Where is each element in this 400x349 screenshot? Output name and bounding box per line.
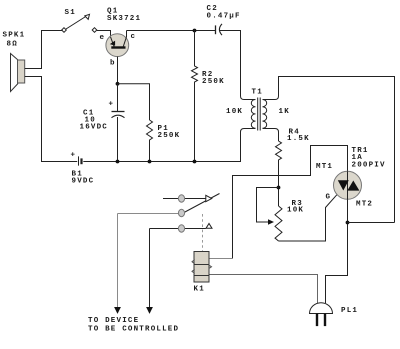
transformer T1 primary winding xyxy=(251,100,255,129)
wire top rail xyxy=(127,30,216,32)
svg-text:TO DEVICE: TO DEVICE xyxy=(88,317,139,325)
relay top contact triangle xyxy=(206,195,212,201)
relay coil K1 body xyxy=(194,252,209,283)
wire Q1 base down xyxy=(117,57,119,84)
svg-text:c: c xyxy=(131,33,137,41)
svg-text:250K: 250K xyxy=(202,78,225,86)
switch S1 blade xyxy=(66,16,87,29)
wire T1 secondary top to right rail xyxy=(263,77,395,223)
wire C1 top xyxy=(117,84,119,111)
potentiometer R3 xyxy=(275,206,282,241)
transistor Q1 base bar xyxy=(111,46,125,48)
transformer T1 secondary winding xyxy=(263,100,267,129)
wire relay coil to MT1 riser xyxy=(210,258,233,260)
wire C1 bottom xyxy=(117,117,119,162)
svg-text:K1: K1 xyxy=(194,286,205,294)
potentiometer P1 xyxy=(147,120,153,162)
svg-text:TO BE CONTROLLED: TO BE CONTROLLED xyxy=(88,326,179,334)
svg-text:250K: 250K xyxy=(158,132,181,140)
wire R3 wiper loop xyxy=(257,188,279,223)
wire triac MT2 down xyxy=(326,199,348,303)
svg-text:SPK1: SPK1 xyxy=(3,32,26,40)
svg-text:G: G xyxy=(326,194,332,202)
wire speaker bottom terminal to bottom rail xyxy=(25,77,77,162)
capacitor C1 top plate xyxy=(112,111,125,113)
arrowhead left to-device xyxy=(114,307,121,314)
wire base node to P1 xyxy=(118,84,150,120)
plug PL1 right prong xyxy=(324,314,326,327)
svg-text:+: + xyxy=(109,101,115,109)
node junction base/C1/P1 xyxy=(116,82,120,86)
wire relay coil bottom to plug xyxy=(210,275,318,304)
svg-text:0.47μF: 0.47μF xyxy=(207,13,241,21)
node junction C1/bottom rail xyxy=(116,160,120,164)
relay terminal top xyxy=(178,195,184,202)
node junction P1/bottom rail xyxy=(148,160,152,164)
resistor R4 xyxy=(276,141,282,206)
svg-text:1.5K: 1.5K xyxy=(287,135,310,143)
capacitor C1 bottom plate xyxy=(112,115,125,118)
svg-text:T1: T1 xyxy=(252,89,263,97)
svg-text:b: b xyxy=(110,59,116,67)
plug PL1 dome xyxy=(310,303,333,314)
relay armature xyxy=(184,194,220,213)
relay coil K1 right chevron xyxy=(209,265,212,269)
relay terminal middle xyxy=(178,209,184,216)
capacitor C2 left plate xyxy=(215,25,217,34)
relay actuator dashed link xyxy=(202,214,204,251)
svg-text:10K: 10K xyxy=(287,207,304,215)
relay coil K1 left chevrons xyxy=(192,260,195,274)
relay terminal bottom xyxy=(178,225,184,232)
svg-text:PL1: PL1 xyxy=(341,307,358,315)
wire bottom rail xyxy=(83,129,255,162)
svg-text:+: + xyxy=(71,152,77,160)
svg-text:9VDC: 9VDC xyxy=(72,177,95,185)
R3 wiper arrow xyxy=(268,219,274,225)
svg-text:200PIV: 200PIV xyxy=(352,162,386,170)
wire C2 to T1 primary top xyxy=(220,31,256,100)
wire S1 to Q1 emitter xyxy=(97,31,111,37)
node junction R2/top rail xyxy=(193,29,197,33)
battery B1 short plate xyxy=(80,158,82,164)
switch S1 blade tip arrow xyxy=(85,14,90,19)
transistor Q1 collector line xyxy=(123,31,126,47)
transformer T1 core xyxy=(258,98,261,131)
switch S1 right terminal xyxy=(92,28,97,33)
node junction R2/bottom rail xyxy=(193,160,197,164)
wire speaker top terminal to S1 xyxy=(25,31,62,69)
svg-text:1K: 1K xyxy=(279,108,290,116)
relay contact top stub xyxy=(163,198,206,200)
triac TR1 vertical line xyxy=(347,171,349,199)
svg-text:MT1: MT1 xyxy=(316,163,333,171)
svg-text:16VDC: 16VDC xyxy=(80,124,109,132)
resistor R2 xyxy=(192,31,198,162)
wire R3 bottom to gate xyxy=(279,195,337,241)
svg-text:S1: S1 xyxy=(65,9,76,17)
relay bottom contact triangle xyxy=(206,224,212,229)
arrowhead right to-device xyxy=(146,307,153,314)
triac TR1 body xyxy=(334,171,362,199)
relay coil K1 divider lines xyxy=(194,265,209,276)
wire relay NO (bottom) xyxy=(150,229,206,308)
plug PL1 left prong xyxy=(316,314,318,327)
svg-text:SK3721: SK3721 xyxy=(107,15,141,23)
wire T1 secondary bottom to R4 xyxy=(263,129,279,142)
wire relay common (middle) xyxy=(118,214,180,308)
svg-text:MT2: MT2 xyxy=(356,201,373,209)
battery B1 long plate xyxy=(78,156,80,165)
transistor Q1 emitter line xyxy=(111,37,115,47)
svg-text:10K: 10K xyxy=(226,108,243,116)
wire triac MT1 from relay xyxy=(233,146,348,259)
node junction MT2/right rail xyxy=(346,221,350,225)
triac TR1 left triangle xyxy=(338,180,349,190)
capacitor C2 right plate xyxy=(219,24,222,35)
svg-text:e: e xyxy=(100,34,106,42)
transistor Q1 body xyxy=(106,34,129,57)
node junction R4/R3 wiper xyxy=(277,186,281,190)
triac TR1 right triangle xyxy=(347,181,359,191)
svg-text:8Ω: 8Ω xyxy=(7,41,18,49)
switch S1 left terminal xyxy=(62,28,67,33)
speaker SPK1 cone xyxy=(11,54,19,92)
speaker SPK1 driver xyxy=(18,60,25,83)
wire MT2 node to right rail xyxy=(348,222,395,224)
transistor Q1 emitter arrow xyxy=(110,41,115,46)
